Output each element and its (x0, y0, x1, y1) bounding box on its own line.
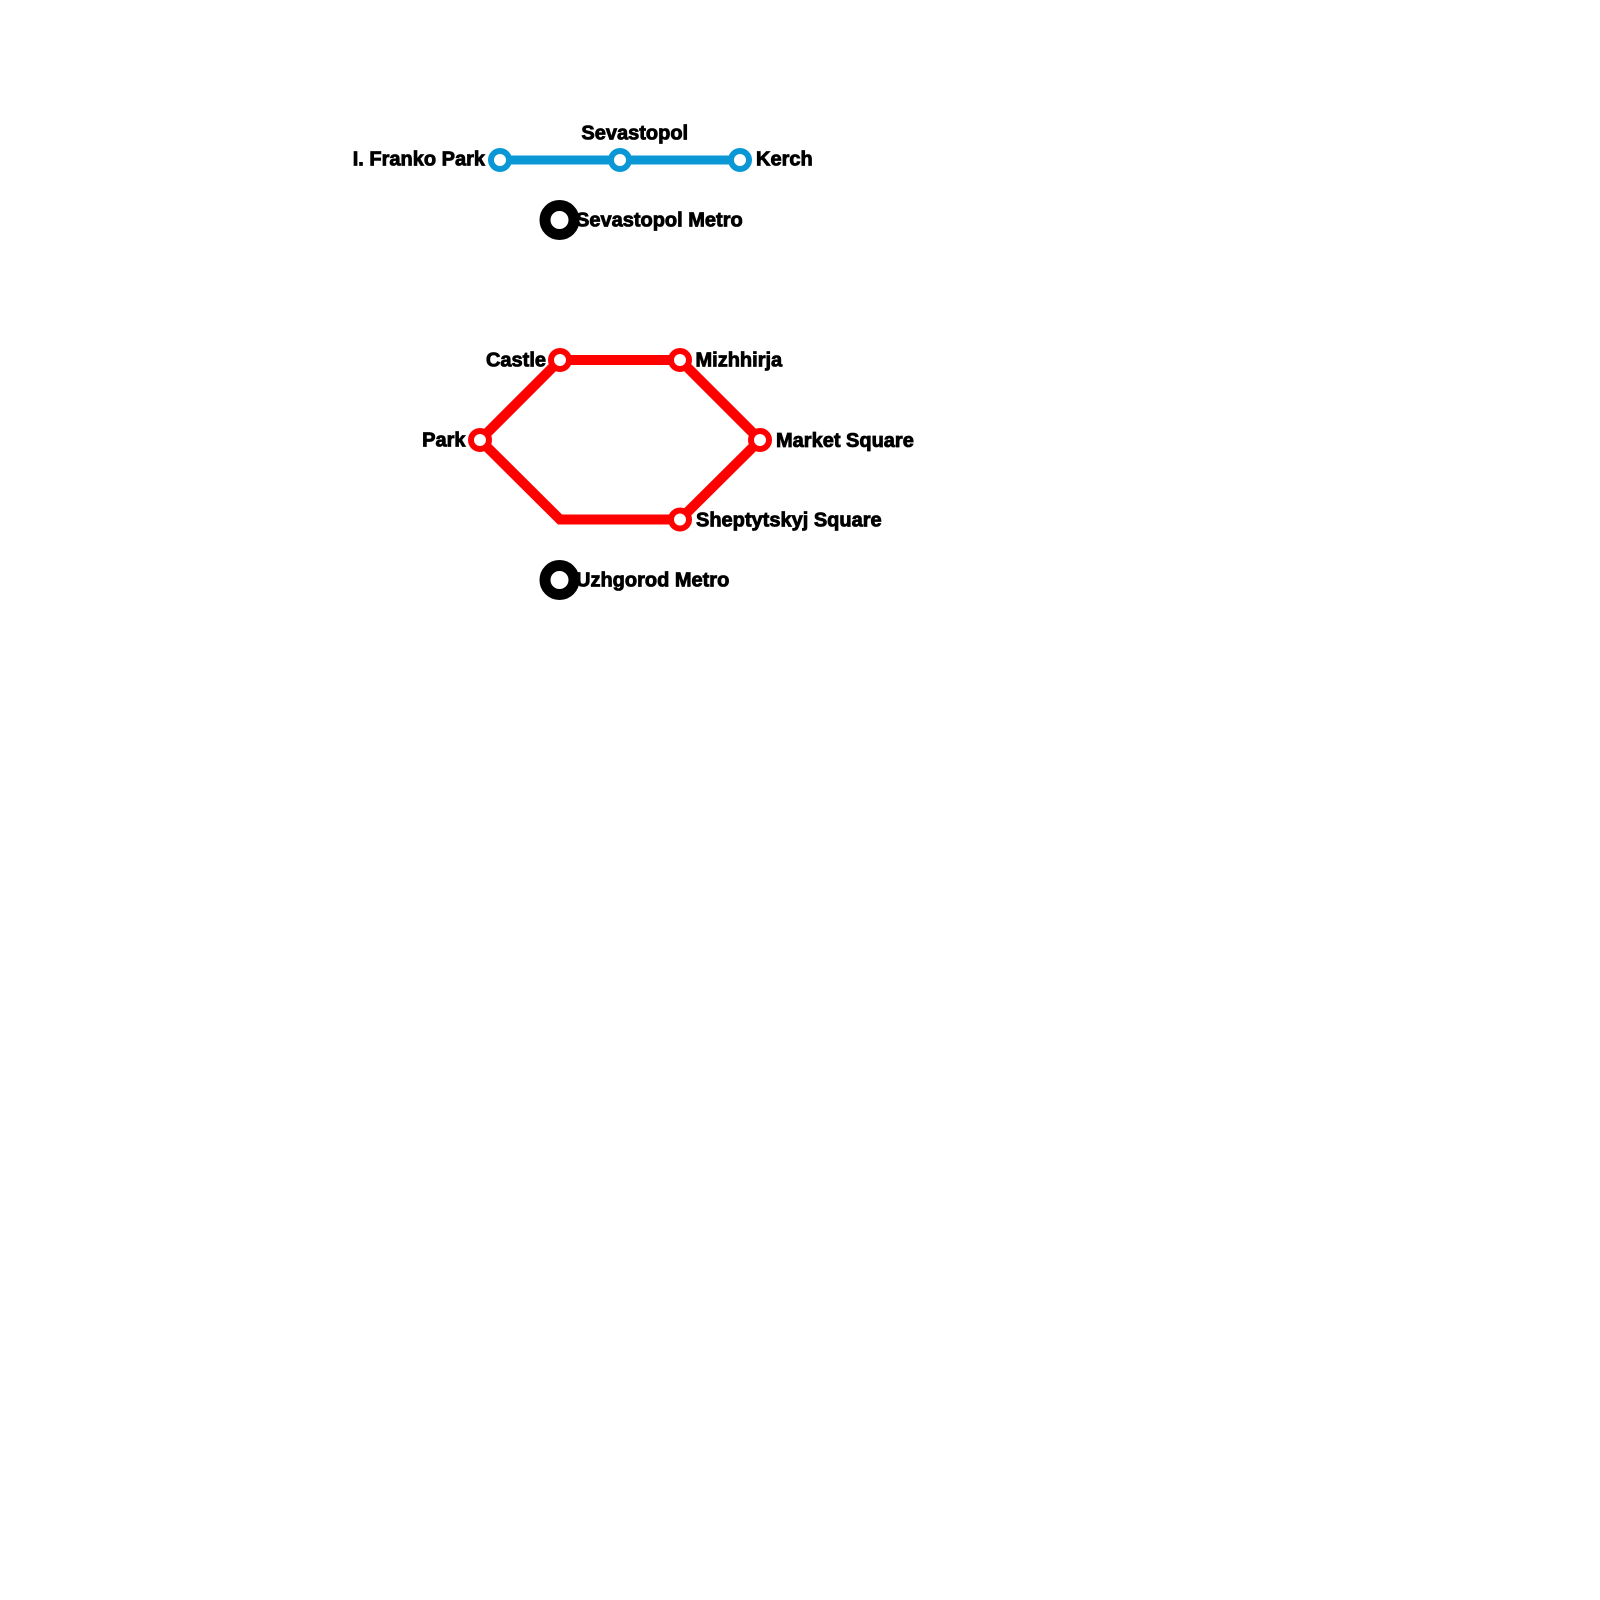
svg-text:I. Franko Park: I. Franko Park (353, 149, 486, 171)
node Kerch station (731, 151, 749, 169)
svg-text:Market Square: Market Square (776, 430, 914, 452)
node Castle station (551, 351, 569, 369)
svg-text:Castle: Castle (486, 350, 546, 372)
node Sheptytskyj Square station (671, 511, 689, 529)
node Mizhhirja station (671, 351, 689, 369)
legend marker Uzhgorod Metro (545, 566, 574, 595)
svg-text:Uzhgorod Metro: Uzhgorod Metro (576, 570, 729, 592)
svg-text:Sevastopol Metro: Sevastopol Metro (576, 210, 743, 232)
svg-text:Sheptytskyj Square: Sheptytskyj Square (696, 510, 882, 532)
node Sevastopol station (611, 151, 629, 169)
svg-text:Mizhhirja: Mizhhirja (696, 350, 784, 372)
legend marker Sevastopol Metro (545, 206, 574, 235)
svg-text:Park: Park (422, 430, 466, 452)
node I. Franko Park station (491, 151, 509, 169)
node Market Square station (751, 431, 769, 449)
wire: blue line Sevastopol (I. Franko Park - Sevastopol - Kerch) (500, 156, 740, 165)
svg-text:Sevastopol: Sevastopol (581, 123, 688, 145)
node Park station (471, 431, 489, 449)
wire: red loop Uzhgorod line (480, 360, 760, 520)
svg-text:Kerch: Kerch (756, 149, 813, 171)
